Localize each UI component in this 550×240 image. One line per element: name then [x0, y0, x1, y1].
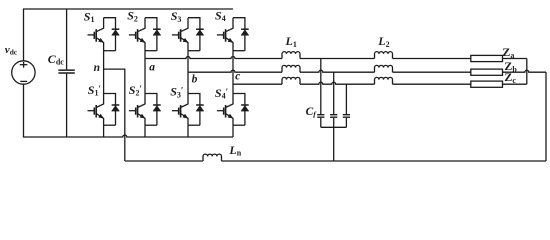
wire: phase b line from L2 to load Z_b	[393, 71, 471, 73]
label S_3	[171, 9, 182, 24]
wire: load common vertical bus (a to c)	[526, 59, 528, 85]
svg-text:Cf: Cf	[306, 106, 318, 119]
svg-text:b: b	[192, 74, 198, 86]
transistor S1 (IGBT with antiparallel diode)	[88, 18, 120, 51]
wire: leg 4 emitter vertical to negative rail	[232, 125, 234, 137]
transistor S1' (IGBT with antiparallel diode)	[88, 94, 120, 126]
transistor S3 (IGBT with antiparallel diode)	[172, 18, 204, 51]
svg-text:Ln: Ln	[228, 143, 241, 158]
transistor S3' (IGBT with antiparallel diode)	[172, 94, 204, 126]
svg-text:S3′: S3′	[170, 85, 183, 100]
node n label	[94, 62, 100, 74]
inductor L1 phase b	[282, 65, 300, 72]
wire: phase b line from L1 to L2 with C_f tap junction	[300, 70, 375, 72]
wire: leg 2 emitter vertical to negative rail	[144, 125, 146, 137]
wire: phase c line from L1 to L2 with C_f tap junction	[300, 82, 375, 84]
capacitor C_f phase a	[317, 59, 324, 128]
wire: phase a line from L1 to L2 with C_f tap junction	[300, 58, 375, 60]
wire: neutral line from n branch to L_n	[125, 160, 203, 162]
svg-text:c: c	[235, 71, 240, 83]
label S_1	[84, 9, 95, 24]
wire: left DC rail top segment	[23, 9, 25, 61]
label Z_b	[504, 59, 517, 74]
label Z_c	[504, 70, 516, 85]
label L_2	[377, 34, 389, 49]
wire: load Z_c to common bus	[503, 83, 527, 85]
capacitor C_f phase b	[330, 72, 337, 127]
svg-text:a: a	[149, 62, 155, 74]
transistor S4' (IGBT with antiparallel diode)	[217, 94, 249, 126]
wire: leg 3 midpoint vertical between S3 and S3'	[187, 51, 189, 94]
node b label	[192, 74, 198, 86]
svg-text:L1: L1	[285, 34, 297, 49]
inductor L2 phase b	[375, 65, 393, 72]
svg-text:S2: S2	[127, 9, 138, 24]
label C_dc	[48, 52, 64, 67]
wire: positive DC rail	[23, 8, 233, 10]
svg-text:L2: L2	[377, 34, 389, 49]
label S_1'	[88, 83, 101, 98]
wire: phase c line from leg midpoint to L1 (with crossover hops)	[233, 83, 282, 85]
load Z_b impedance box	[471, 69, 503, 75]
label S_2	[127, 9, 138, 24]
inductor L2 phase a	[375, 52, 393, 59]
label L_1	[285, 34, 297, 49]
capacitor C_f phase c	[343, 84, 350, 127]
transistor S4 (IGBT with antiparallel diode)	[217, 18, 249, 51]
svg-text:S4: S4	[215, 8, 226, 23]
transistor S2' (IGBT with antiparallel diode)	[129, 94, 161, 126]
svg-text:S2′: S2′	[129, 83, 142, 98]
svg-text:S1′: S1′	[88, 83, 101, 98]
wire: phase b line from leg midpoint to L1 (with crossover hops)	[188, 70, 282, 72]
inductor L2 phase c	[375, 77, 393, 84]
wire: leg 2 midpoint vertical between S2 and S2'	[144, 51, 146, 94]
node a label	[149, 62, 155, 74]
wire: leg 1 emitter vertical to negative rail	[103, 125, 105, 137]
svg-text:S1: S1	[84, 9, 95, 24]
label S_4'	[215, 86, 228, 101]
wire: left DC rail bottom segment	[23, 84, 25, 137]
label C_f	[306, 106, 318, 119]
wire: leg 4 midpoint vertical between S4 and S4'	[232, 51, 234, 94]
wire: right-side neutral return drop	[545, 72, 547, 161]
svg-text:vdc: vdc	[5, 44, 18, 57]
wire: negative DC rail with crossover hop over neutral branch	[23, 135, 233, 137]
wire: C_f star point down to neutral	[333, 127, 335, 161]
wire: load Z_b to right return corner (hops over a-c bus)	[503, 70, 547, 72]
svg-text:n: n	[94, 62, 100, 74]
inductor L_n	[203, 154, 222, 161]
wire: C_f common bus	[321, 126, 347, 128]
load Z_a impedance box	[471, 55, 503, 61]
wire: leg 1 midpoint vertical between S1 and S1'	[103, 51, 105, 94]
node c label	[235, 71, 240, 83]
wire: load Z_a to common bus	[503, 58, 527, 60]
svg-text:Cdc: Cdc	[48, 52, 64, 67]
svg-text:S3: S3	[171, 9, 182, 24]
svg-text:Za: Za	[502, 45, 514, 60]
svg-text:S4′: S4′	[215, 86, 228, 101]
wire: node n tap down to neutral branch	[104, 69, 125, 161]
label L_n	[228, 143, 241, 158]
load Z_c impedance box	[471, 81, 503, 87]
wire: phase a line from leg midpoint to L1 (with crossover hops)	[145, 57, 282, 59]
transistor S2 (IGBT with antiparallel diode)	[129, 18, 161, 51]
wire: neutral line from L_n to right return	[222, 160, 547, 162]
wire: phase a line from L2 to load Z_a	[393, 58, 471, 60]
label v_dc	[5, 44, 18, 57]
inductor L1 phase a	[282, 52, 300, 59]
label Z_a	[502, 45, 514, 60]
label S_4	[215, 8, 226, 23]
inductor L1 phase c	[282, 77, 300, 84]
capacitor C_dc	[58, 9, 74, 137]
label S_2'	[129, 83, 142, 98]
wire: leg 3 emitter vertical to negative rail	[187, 125, 189, 137]
label S_3'	[170, 85, 183, 100]
voltage source v_dc	[12, 61, 35, 84]
wire: phase c line from L2 to load Z_c	[393, 83, 471, 85]
